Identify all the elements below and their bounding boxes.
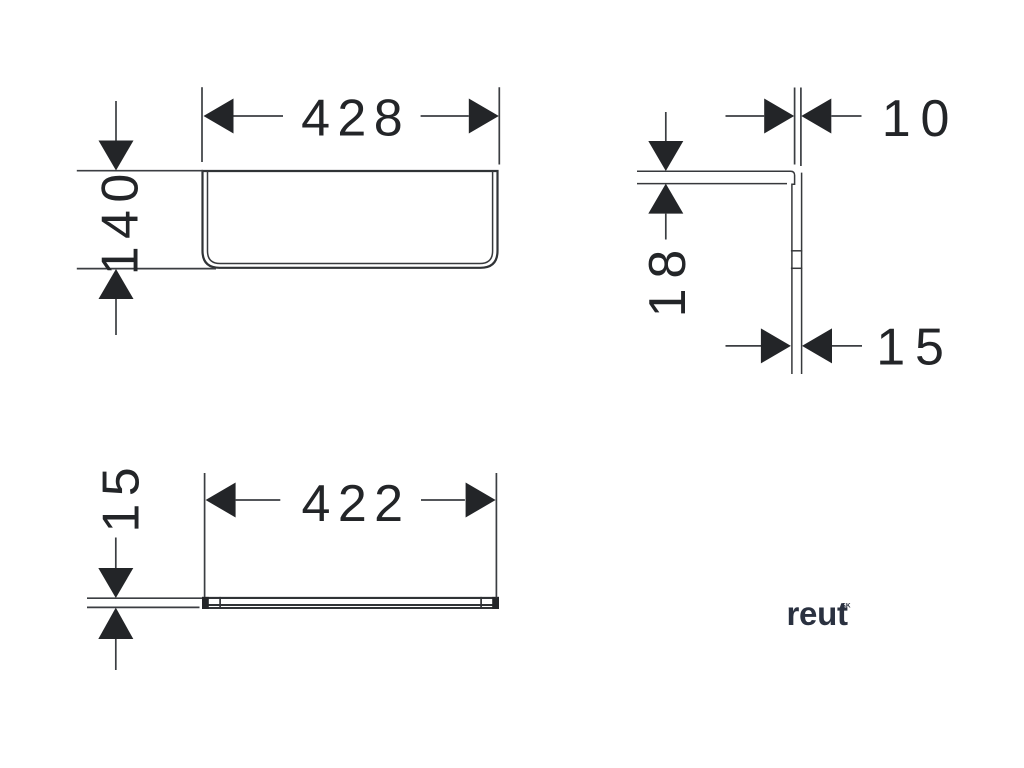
dimension 140 arrow bottom xyxy=(99,269,134,299)
dimension 10 extension line left xyxy=(794,88,796,165)
svg-text:10: 10 xyxy=(882,90,959,148)
bar bottom edge xyxy=(202,607,499,609)
dimension 428 arrow left xyxy=(204,99,234,134)
dimension 15 (front) line above xyxy=(115,538,117,569)
dimension 428 extension line right xyxy=(498,87,500,164)
dimension 18 line above xyxy=(665,112,667,142)
dimension 15 arrow left xyxy=(761,328,791,363)
break tick upper xyxy=(791,250,802,252)
bar right end block xyxy=(492,597,499,609)
dimension 422 line right xyxy=(421,499,465,501)
dimension 422 extension line right xyxy=(495,473,497,598)
dimension 428 extension line left xyxy=(201,87,203,162)
bar right tick xyxy=(480,597,482,609)
profile wall-side vertical xyxy=(801,173,803,374)
dimension 428 line right segment xyxy=(421,115,469,117)
svg-text:15: 15 xyxy=(92,460,150,533)
shelf outline inner xyxy=(208,171,493,264)
svg-text:15: 15 xyxy=(876,319,953,377)
shelf outline outer xyxy=(203,171,498,268)
dimension 18 line below xyxy=(665,214,667,240)
dimension 15 (front) arrow top xyxy=(98,568,133,598)
bar top edge xyxy=(202,597,499,599)
dimension 428 line left segment xyxy=(234,115,284,117)
dimension 10 line right xyxy=(831,115,861,117)
dimension 422 extension line left xyxy=(204,473,206,597)
dimension 15 arrow right xyxy=(802,328,832,363)
dimension 140 arrow top xyxy=(99,141,134,171)
dimension 428 arrow right xyxy=(469,99,499,134)
dimension 10 arrow left xyxy=(764,99,794,134)
dimension 15 line left xyxy=(726,345,762,347)
dimension 15 (front) extension line top xyxy=(87,597,202,599)
dimension 15 (front) arrow bottom xyxy=(98,608,133,639)
bar middle line xyxy=(202,604,499,606)
svg-text:SK: SK xyxy=(842,602,851,609)
dimension 140 line above xyxy=(115,101,117,141)
dimension 18 arrow top xyxy=(648,141,683,171)
dimension 140 extension line bottom xyxy=(77,268,216,270)
reut logo xyxy=(787,595,851,632)
svg-text:140: 140 xyxy=(91,166,149,275)
dimension 15 (front) line below xyxy=(115,639,117,670)
dimension 422 arrow right xyxy=(466,483,496,518)
profile bottom surface xyxy=(637,183,787,185)
svg-text:428: 428 xyxy=(301,90,410,148)
svg-text:reut: reut xyxy=(787,595,848,632)
svg-text:422: 422 xyxy=(302,475,411,533)
dimension 15 line right xyxy=(832,345,862,347)
dimension 422 line left xyxy=(236,499,281,501)
break tick lower xyxy=(791,267,802,269)
dimension 422 arrow left xyxy=(206,483,236,518)
profile top surface and front vertical xyxy=(637,171,795,374)
svg-text:18: 18 xyxy=(639,240,697,317)
dimension 10 extension line right xyxy=(800,88,802,167)
dimension 15 (front) extension line bottom xyxy=(87,606,200,608)
bar left tick xyxy=(219,597,221,609)
dimension 140 line below xyxy=(115,299,117,335)
dimension 10 line left xyxy=(726,115,765,117)
dimension 140 extension line top xyxy=(77,170,203,172)
bar left end block xyxy=(202,597,209,609)
dimension 18 arrow bottom xyxy=(648,184,683,214)
dimension 10 arrow right xyxy=(801,99,831,134)
